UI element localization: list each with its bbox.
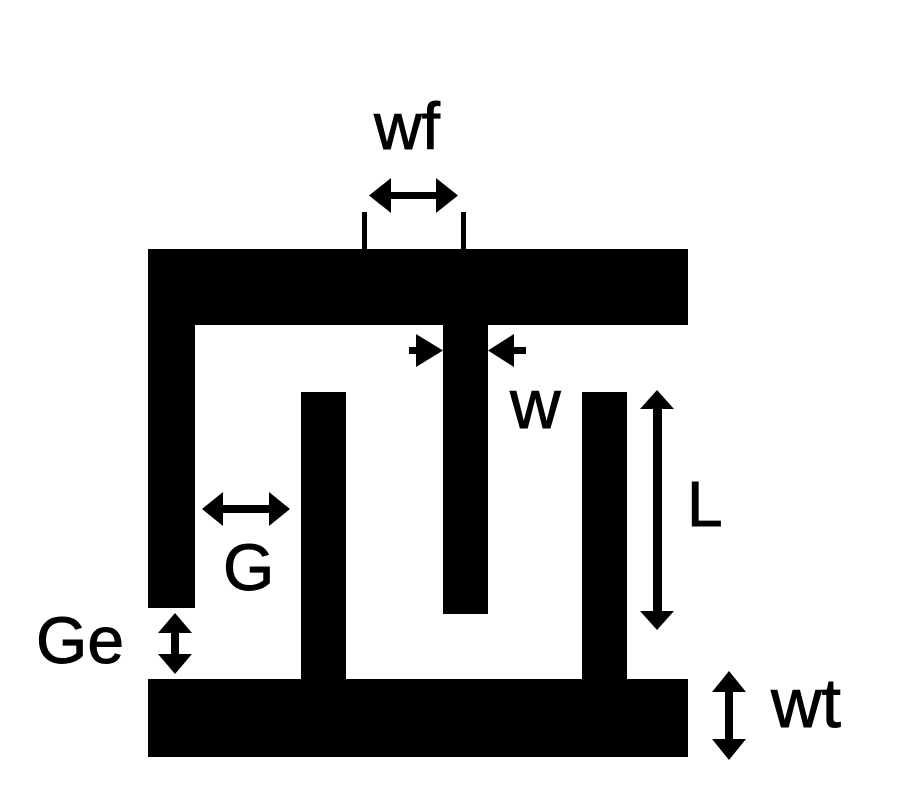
bottom ground bar: [148, 679, 688, 757]
top conductor bar: [148, 249, 688, 325]
svg-text:G: G: [223, 530, 274, 604]
inner-left vertical strip: [301, 392, 346, 682]
svg-text:w: w: [509, 365, 561, 443]
svg-text:wt: wt: [770, 664, 841, 742]
inner-right vertical strip: [582, 392, 627, 682]
svg-text:Ge: Ge: [36, 603, 124, 677]
svg-text:wf: wf: [373, 89, 441, 163]
dimension arrow w left (points right at stem): [409, 334, 443, 367]
dimension arrow wf (horizontal double-headed): [369, 178, 458, 213]
left vertical strip: [148, 249, 195, 608]
dimension arrow Ge (vertical double-headed): [158, 613, 192, 674]
dimension arrow G (horizontal double-headed): [202, 492, 290, 526]
extent tick right of wf: [461, 212, 466, 249]
dimension arrow wt (vertical double-headed): [712, 671, 746, 760]
svg-text:L: L: [687, 468, 723, 540]
dimension arrow L (vertical double-headed): [640, 390, 674, 630]
center feed stem: [443, 290, 488, 614]
extent tick left of wf: [362, 212, 367, 249]
dimension arrow w right (points left at stem): [488, 334, 526, 367]
